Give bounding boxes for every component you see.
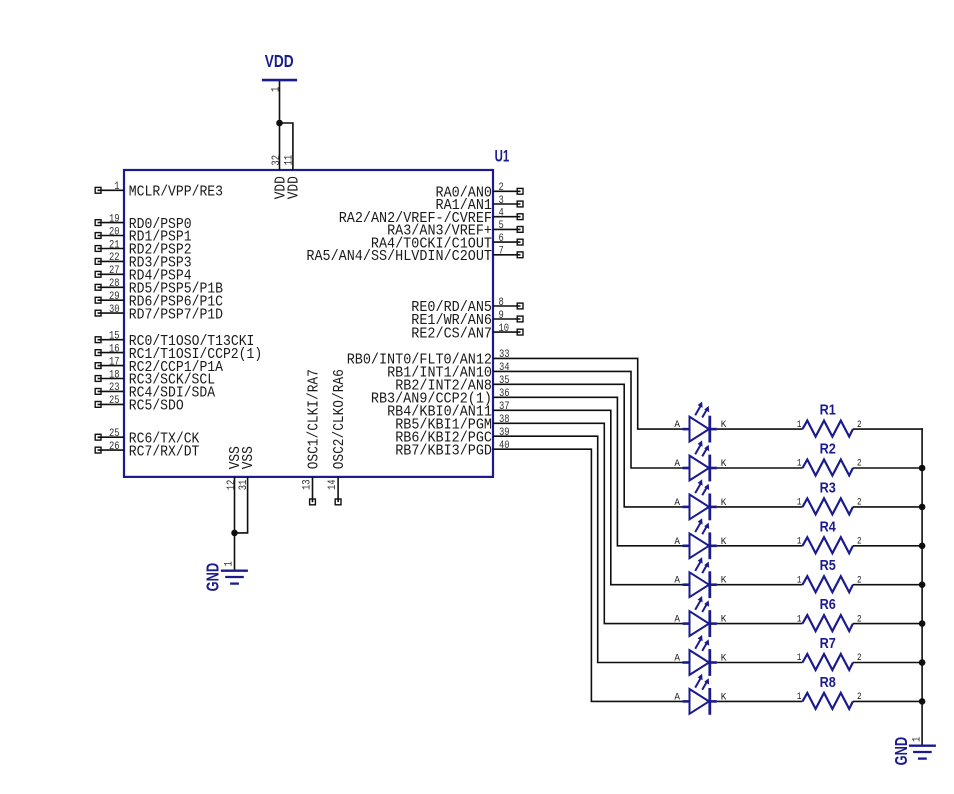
svg-text:VDD: VDD xyxy=(287,176,303,199)
svg-text:32: 32 xyxy=(271,155,283,166)
svg-text:17: 17 xyxy=(109,356,120,368)
svg-text:K: K xyxy=(721,497,727,509)
svg-text:RD7/PSP7/P1D: RD7/PSP7/P1D xyxy=(129,307,223,323)
svg-text:34: 34 xyxy=(499,362,510,374)
svg-text:10: 10 xyxy=(499,323,510,335)
svg-text:14: 14 xyxy=(327,479,339,490)
svg-text:4: 4 xyxy=(499,208,505,220)
svg-text:21: 21 xyxy=(109,239,120,251)
svg-text:6: 6 xyxy=(499,233,504,245)
svg-text:2: 2 xyxy=(857,574,862,586)
svg-text:A: A xyxy=(674,614,680,626)
svg-text:11: 11 xyxy=(283,154,295,165)
svg-text:OSC1/CLKI/RA7: OSC1/CLKI/RA7 xyxy=(306,369,322,469)
svg-text:25: 25 xyxy=(109,428,120,440)
svg-text:1: 1 xyxy=(224,561,236,567)
svg-text:19: 19 xyxy=(109,213,120,225)
svg-text:2: 2 xyxy=(857,652,862,664)
svg-text:K: K xyxy=(721,691,727,703)
svg-text:RC5/SDO: RC5/SDO xyxy=(129,399,184,415)
svg-text:25: 25 xyxy=(109,395,120,407)
svg-text:RB7/KBI3/PGD: RB7/KBI3/PGD xyxy=(395,443,492,459)
svg-text:39: 39 xyxy=(499,427,510,439)
svg-text:A: A xyxy=(674,497,680,509)
svg-text:GND: GND xyxy=(203,563,223,592)
svg-text:A: A xyxy=(674,458,680,470)
svg-text:1: 1 xyxy=(797,536,802,548)
svg-text:K: K xyxy=(721,653,727,665)
svg-text:R1: R1 xyxy=(820,403,836,419)
svg-text:12: 12 xyxy=(226,480,238,491)
svg-text:9: 9 xyxy=(499,310,504,322)
svg-text:15: 15 xyxy=(109,331,120,343)
svg-text:1: 1 xyxy=(797,497,802,509)
svg-text:RE2/CS/AN7: RE2/CS/AN7 xyxy=(411,326,492,342)
svg-text:2: 2 xyxy=(857,536,862,548)
svg-text:20: 20 xyxy=(109,226,120,238)
svg-text:R4: R4 xyxy=(820,519,836,535)
svg-text:A: A xyxy=(674,536,680,548)
svg-text:2: 2 xyxy=(857,458,862,470)
svg-text:K: K xyxy=(721,419,727,431)
svg-text:R3: R3 xyxy=(820,480,836,496)
svg-text:OSC2/CLKO/RA6: OSC2/CLKO/RA6 xyxy=(332,369,348,469)
svg-text:1: 1 xyxy=(797,574,802,586)
svg-text:GND: GND xyxy=(891,737,911,766)
svg-text:K: K xyxy=(721,575,727,587)
svg-text:18: 18 xyxy=(109,369,120,381)
svg-text:35: 35 xyxy=(499,375,510,387)
svg-text:36: 36 xyxy=(499,388,510,400)
svg-text:8: 8 xyxy=(499,297,504,309)
svg-text:2: 2 xyxy=(857,419,862,431)
svg-text:27: 27 xyxy=(109,265,120,277)
svg-text:30: 30 xyxy=(109,304,120,316)
svg-text:RA5/AN4/SS/HLVDIN/C2OUT: RA5/AN4/SS/HLVDIN/C2OUT xyxy=(306,249,492,265)
svg-text:31: 31 xyxy=(238,479,250,490)
svg-text:2: 2 xyxy=(857,497,862,509)
svg-text:U1: U1 xyxy=(495,148,510,166)
svg-text:7: 7 xyxy=(499,246,504,258)
svg-text:2: 2 xyxy=(499,182,504,194)
svg-text:A: A xyxy=(674,575,680,587)
svg-text:13: 13 xyxy=(302,479,314,490)
svg-text:A: A xyxy=(674,691,680,703)
svg-text:R2: R2 xyxy=(820,442,836,458)
svg-text:MCLR/VPP/RE3: MCLR/VPP/RE3 xyxy=(129,185,223,201)
svg-text:VDD: VDD xyxy=(265,51,294,71)
svg-text:40: 40 xyxy=(499,440,510,452)
svg-text:2: 2 xyxy=(857,613,862,625)
svg-text:38: 38 xyxy=(499,414,510,426)
svg-text:A: A xyxy=(674,653,680,665)
svg-text:23: 23 xyxy=(109,382,120,394)
svg-text:K: K xyxy=(721,536,727,548)
svg-text:3: 3 xyxy=(499,195,504,207)
svg-text:R8: R8 xyxy=(820,675,836,691)
svg-text:1: 1 xyxy=(797,652,802,664)
svg-text:16: 16 xyxy=(109,343,120,355)
svg-text:1: 1 xyxy=(797,613,802,625)
svg-text:1: 1 xyxy=(114,181,120,193)
svg-text:R5: R5 xyxy=(820,558,836,574)
svg-text:33: 33 xyxy=(499,349,510,361)
svg-text:K: K xyxy=(721,458,727,470)
svg-text:1: 1 xyxy=(797,419,802,431)
svg-text:5: 5 xyxy=(499,220,504,232)
svg-text:1: 1 xyxy=(797,691,802,703)
svg-text:1: 1 xyxy=(912,736,924,742)
svg-text:26: 26 xyxy=(109,441,120,453)
svg-text:28: 28 xyxy=(109,278,120,290)
svg-text:1: 1 xyxy=(797,458,802,470)
svg-text:K: K xyxy=(721,614,727,626)
svg-text:1: 1 xyxy=(270,86,282,92)
svg-text:22: 22 xyxy=(109,252,120,264)
svg-text:37: 37 xyxy=(499,401,510,413)
svg-text:VSS: VSS xyxy=(241,446,257,469)
svg-text:29: 29 xyxy=(109,291,120,303)
svg-text:R6: R6 xyxy=(820,597,836,613)
svg-text:R7: R7 xyxy=(820,636,836,652)
svg-text:A: A xyxy=(674,419,680,431)
svg-text:RC7/RX/DT: RC7/RX/DT xyxy=(129,444,200,460)
svg-text:2: 2 xyxy=(857,691,862,703)
